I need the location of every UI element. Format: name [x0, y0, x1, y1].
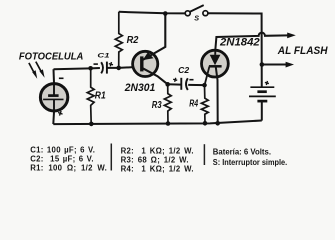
parts list divider 2 — [203, 144, 205, 165]
SCR anode line with crossover hop and arrow to flash — [215, 33, 287, 49]
svg-text:R2: R2 — [127, 34, 139, 46]
svg-text:R4: R4 — [189, 99, 198, 110]
C1 plus mark — [108, 62, 113, 67]
Q1 collector lead — [143, 68, 168, 84]
svg-text:2N1842: 2N1842 — [219, 37, 260, 49]
junction dot R3 bottom rail — [166, 121, 171, 126]
svg-text:R3: R3 — [152, 100, 162, 111]
parts list column 3 — [213, 148, 287, 168]
parts list column 1 — [30, 145, 107, 172]
wire: collector node to C2 left — [168, 83, 181, 85]
parts list column 2 — [121, 146, 194, 173]
junction dot gate node — [202, 83, 207, 88]
SCR internal anode stub — [214, 49, 216, 55]
photocell PC1 body — [40, 84, 67, 111]
junction dot battery top — [260, 62, 265, 67]
arrow to flash lower — [262, 64, 286, 66]
wire: signal line photocell to C1 — [54, 68, 100, 69]
parts list divider 1 — [110, 144, 112, 171]
switch S left contact — [185, 11, 190, 16]
junction dot cathode rail — [215, 121, 220, 126]
svg-text:C1: C1 — [97, 53, 109, 60]
junction dot R4 bottom rail — [203, 121, 208, 126]
wire: bottom rail — [53, 121, 261, 125]
capacitor C1 — [101, 62, 107, 74]
svg-text:AL FLASH: AL FLASH — [277, 45, 329, 57]
light arrow 2 — [36, 62, 45, 78]
junction dot collector node — [165, 82, 170, 87]
svg-text:R2: 1 KΩ; 1/2 W.: R2: 1 KΩ; 1/2 W. — [121, 146, 194, 155]
svg-text:C2: 15 µF; 6 V.: C2: 15 µF; 6 V. — [30, 154, 94, 163]
wire: C1 to base node to transistor base — [107, 67, 141, 68]
svg-text:2N301: 2N301 — [124, 82, 155, 94]
light arrow 1 — [29, 63, 37, 79]
Q1 base bar — [140, 56, 143, 71]
junction dot R2 bottom — [116, 66, 121, 71]
svg-text:R1: R1 — [95, 90, 106, 101]
photocell PC1 leads — [52, 69, 55, 124]
photocell plus mark — [57, 110, 63, 116]
C1 minus mark — [94, 63, 98, 65]
battery plus mark — [264, 80, 269, 85]
svg-text:FOTOCELULA: FOTOCELULA — [19, 52, 84, 63]
junction dot base node R1 top — [88, 66, 93, 71]
photocell minus mark — [59, 77, 64, 79]
SCR cathode lead to rail — [216, 66, 218, 123]
transistor Q1 2N301 body — [133, 51, 158, 76]
SCR cathode bar — [209, 65, 222, 68]
C2 minus mark — [189, 79, 193, 81]
svg-text:S: S — [194, 14, 199, 23]
svg-text:S: Interruptor simple.: S: Interruptor simple. — [213, 158, 287, 167]
battery bottom lead — [261, 101, 263, 120]
arrowhead flash lower — [286, 62, 294, 68]
SCR U1 2N1842 body — [202, 50, 229, 77]
battery B1 — [249, 87, 276, 101]
svg-text:R4: 1 KΩ; 1/2 W.: R4: 1 KΩ; 1/2 W. — [121, 164, 194, 173]
junction dot R1 bottom rail — [89, 122, 94, 127]
SCR triangle — [210, 55, 221, 65]
wire: top rail from R2 top to switch — [119, 12, 185, 14]
resistor R3 — [164, 84, 171, 123]
C2 plus mark — [173, 77, 178, 82]
wire: switch right contact to top-right corner and down battery line — [208, 13, 262, 87]
Q1 emitter lead to top rail — [143, 13, 166, 60]
svg-text:R1: 100 Ω; 1/2 W.: R1: 100 Ω; 1/2 W. — [30, 163, 107, 172]
resistor R2 — [115, 12, 122, 68]
capacitor C2 — [181, 78, 188, 90]
Q1 emitter arrow — [143, 52, 154, 60]
resistor R1 — [87, 68, 94, 124]
junction dot emitter on top rail — [163, 11, 168, 16]
arrowhead flash top — [287, 33, 296, 39]
svg-text:R3: 68 Ω; 1/2 W.: R3: 68 Ω; 1/2 W. — [121, 155, 189, 164]
resistor R4 — [201, 85, 208, 123]
switch S right contact — [203, 11, 208, 16]
SCR gate lead — [205, 67, 210, 86]
svg-text:Batería: 6 Volts.: Batería: 6 Volts. — [213, 148, 271, 157]
wire: C2 right to gate node — [188, 84, 204, 86]
svg-text:C2: C2 — [178, 66, 190, 75]
switch S lever — [190, 5, 204, 12]
svg-text:C1: 100 µF; 6 V.: C1: 100 µF; 6 V. — [30, 145, 95, 154]
